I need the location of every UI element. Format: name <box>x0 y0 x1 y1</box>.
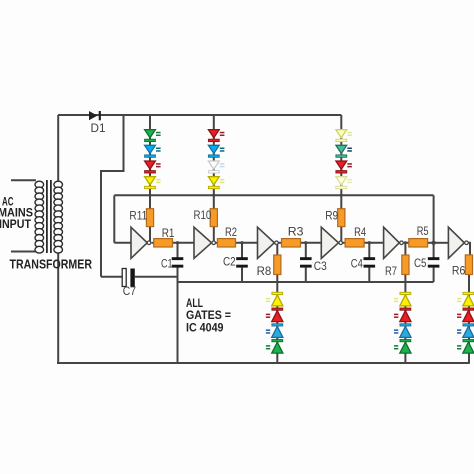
svg-text:TRANSFORMER: TRANSFORMER <box>10 257 93 271</box>
svg-text:D1: D1 <box>91 121 106 135</box>
svg-text:C2: C2 <box>223 255 236 269</box>
svg-text:R7: R7 <box>385 264 397 278</box>
svg-text:R8: R8 <box>257 264 272 278</box>
svg-text:C7: C7 <box>123 284 137 298</box>
svg-text:C4: C4 <box>351 256 363 270</box>
svg-text:C1: C1 <box>161 257 173 271</box>
svg-text:R3: R3 <box>288 224 304 238</box>
svg-text:R2: R2 <box>225 225 237 239</box>
svg-text:R4: R4 <box>354 225 366 239</box>
svg-text:IC 4049: IC 4049 <box>186 321 224 335</box>
svg-text:C5: C5 <box>414 256 427 270</box>
svg-text:C3: C3 <box>314 259 327 273</box>
svg-text:R9: R9 <box>325 209 338 223</box>
svg-text:R6: R6 <box>452 264 466 278</box>
svg-text:R11: R11 <box>129 209 147 223</box>
svg-text:INPUT: INPUT <box>0 217 32 231</box>
svg-text:R5: R5 <box>417 224 429 238</box>
svg-text:R1: R1 <box>162 226 175 240</box>
svg-text:R10: R10 <box>194 208 212 222</box>
